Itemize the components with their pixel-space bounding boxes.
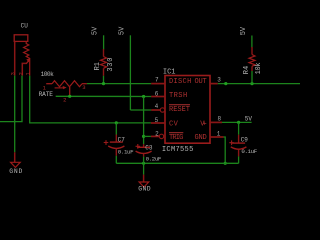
wire TRSH to TRIG and C3 vertical (143, 97, 145, 145)
5V supply #3 (above R4) (240, 26, 252, 47)
svg-text:2: 2 (155, 131, 159, 138)
wire V+ net (222, 121, 252, 123)
svg-text:GND: GND (9, 168, 22, 175)
wire C9 to gnd rail corner (238, 156, 240, 163)
ground (center) (138, 163, 151, 192)
svg-text:330: 330 (107, 58, 115, 72)
svg-text:CU: CU (21, 23, 29, 30)
svg-text:1: 1 (217, 130, 221, 137)
node GND rail junction (224, 162, 227, 165)
pin 2 TRIG (151, 135, 159, 137)
wire R4 to OUT net (251, 71, 253, 84)
node C7/CV junction (115, 121, 118, 124)
node V+ junction (237, 121, 240, 124)
IC1 ICM7555 (151, 68, 224, 154)
svg-text:ICM7555: ICM7555 (162, 146, 193, 154)
wire C7 to gnd rail (115, 156, 117, 164)
capacitor C9 0.1uF (229, 122, 257, 156)
svg-text:0.1uF: 0.1uF (241, 148, 257, 155)
svg-text:3: 3 (217, 77, 221, 84)
svg-text:RESET: RESET (169, 106, 190, 114)
wire TRSH net (56, 95, 152, 97)
node C3/GND junction (142, 162, 145, 165)
svg-text:0.1uF: 0.1uF (118, 148, 134, 155)
wire GND pin down to rail (224, 137, 226, 163)
capacitor C3 0.2uF (136, 144, 162, 163)
wire pot left pin down to ground (14, 76, 16, 153)
node RATE wiper junction (68, 95, 71, 98)
node TRIG junction (142, 135, 145, 138)
svg-text:6: 6 (155, 90, 159, 97)
svg-text:C7: C7 (118, 136, 126, 143)
svg-text:5V: 5V (240, 26, 248, 35)
pin 1 GND (210, 136, 224, 138)
svg-text:TRIG: TRIG (169, 134, 183, 142)
svg-text:V+: V+ (200, 121, 206, 129)
svg-text:5V: 5V (245, 116, 253, 123)
wire ground rail (116, 162, 238, 164)
svg-text:5V: 5V (119, 26, 127, 35)
pin 5 CV (151, 122, 165, 124)
svg-text:GND: GND (138, 186, 151, 193)
svg-text:8: 8 (218, 116, 222, 123)
svg-text:TRSH: TRSH (169, 92, 187, 100)
trimpot CV (top-left) (11, 23, 32, 76)
svg-text:DISCH: DISCH (169, 78, 191, 86)
svg-text:4: 4 (155, 103, 159, 110)
resistor R1 330 (94, 49, 115, 76)
svg-text:CV: CV (169, 121, 179, 129)
potentiometer RATE 100k (39, 71, 87, 103)
pin 6 TRSH (151, 96, 165, 98)
svg-text:100k: 100k (41, 71, 54, 78)
wire DISCH net: RATE pin3 to pin 7 (87, 83, 151, 85)
pin 3 OUT (210, 83, 218, 85)
wire R1 to DISCH net (103, 76, 105, 84)
svg-text:RATE: RATE (39, 91, 54, 98)
svg-text:5V: 5V (92, 26, 100, 35)
pin 4 RESET (151, 109, 160, 111)
svg-text:7: 7 (155, 77, 159, 84)
wire RESET to 5V (130, 109, 151, 111)
wire pot right pin to CV net (30, 76, 151, 123)
svg-text:5: 5 (155, 117, 159, 124)
svg-text:R4: R4 (243, 66, 251, 74)
svg-text:1: 1 (26, 72, 32, 75)
node OUT junction (224, 82, 227, 85)
svg-text:0.2uF: 0.2uF (146, 155, 162, 162)
wire pot wiper to left edge (0, 76, 22, 122)
svg-text:OUT: OUT (195, 78, 207, 86)
pin 7 DISCH (151, 83, 165, 85)
resistor R4 10k (243, 47, 263, 74)
5V supply #2 (RESET) (119, 26, 131, 110)
svg-text:3: 3 (11, 72, 17, 75)
node R4/OUT junction (250, 82, 253, 85)
wire TRIG to pin 2 (144, 135, 151, 137)
svg-text:2: 2 (18, 72, 24, 75)
svg-text:C9: C9 (241, 137, 249, 144)
pin 8 V+ (210, 121, 222, 123)
ground (left) (9, 152, 22, 175)
wire OUT net to right edge (218, 83, 300, 85)
svg-text:3: 3 (82, 84, 85, 91)
svg-text:2: 2 (63, 97, 66, 104)
5V supply #1 (above R1) (92, 26, 104, 50)
svg-text:R1: R1 (94, 62, 102, 70)
node R1/DISCH junction (102, 82, 105, 85)
node TRSH vertical junction (142, 95, 145, 98)
svg-text:GND: GND (195, 134, 207, 142)
svg-text:C3: C3 (145, 145, 153, 152)
svg-text:10k: 10k (255, 62, 263, 74)
capacitor C7 0.1uF (104, 123, 134, 156)
